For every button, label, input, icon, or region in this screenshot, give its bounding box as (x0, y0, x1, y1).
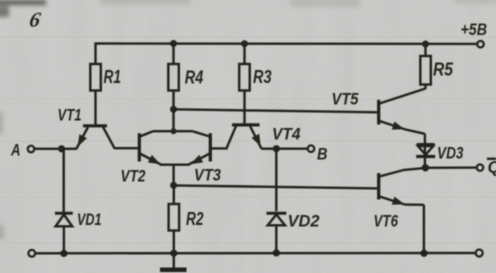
junction dot R4 top rail (170, 40, 177, 47)
svg-text:+5В: +5В (461, 21, 488, 39)
VT5 base bar (377, 100, 380, 125)
junction dot VD2 bottom rail (273, 249, 280, 256)
VT4 collector (211, 126, 236, 148)
ground rail (bottom bus wire) (35, 252, 476, 255)
VT2 base bar (138, 133, 141, 161)
resistor R1 (90, 64, 101, 91)
svg-text:R1: R1 (104, 67, 122, 87)
VT3 base bar (209, 133, 212, 161)
junction dot R4 bottom node (170, 106, 177, 113)
VT6 emitter (380, 197, 424, 205)
ground terminal right circle (476, 250, 483, 257)
VT3 emitter (189, 154, 210, 165)
VT5 emitter (380, 121, 425, 134)
VT1 base bar (83, 124, 107, 127)
svg-text:R3: R3 (253, 67, 272, 87)
transistor VT1 (77, 126, 139, 149)
VT6 collector (380, 168, 424, 176)
wire VD1 to ground rail (63, 226, 65, 253)
wire R3 top lead (243, 44, 245, 64)
wire R4 top lead (172, 44, 174, 65)
transistor VT5 (379, 89, 426, 134)
junction dot R2 bottom rail (170, 250, 177, 257)
VT3 emitter arrow (191, 155, 204, 164)
wire R5 bottom lead (424, 85, 426, 90)
svg-text:VT1: VT1 (58, 107, 82, 125)
VT4 emitter arrow (252, 134, 261, 147)
wire collector bus top of lens (153, 130, 192, 132)
wire VD2 to ground rail (275, 225, 277, 253)
wire Q node to output terminal (425, 166, 476, 169)
wire R2 top lead (173, 185, 175, 204)
wire lens bottom down to R2 node (172, 165, 174, 186)
VT5 collector (380, 89, 426, 104)
transistor VT4 (211, 125, 276, 149)
svg-text:VD3: VD3 (437, 145, 464, 163)
junction dot VD1 bottom rail (60, 250, 67, 257)
VT4 emitter (250, 126, 262, 149)
wire R4 node down to collector bus (172, 109, 174, 131)
wire emitter bus bottom of lens (160, 163, 190, 165)
svg-text:R5: R5 (433, 60, 454, 80)
junction dot lens top (171, 128, 177, 134)
svg-text:Q: Q (488, 158, 496, 177)
wire R5 top lead (424, 44, 426, 56)
junction dot R3 top rail (241, 40, 248, 47)
power rail +5V (top bus wire) (96, 44, 478, 64)
output terminal Q circle (477, 164, 483, 170)
diode VD2 (267, 213, 287, 225)
svg-text:VD2: VD2 (288, 213, 320, 231)
VT5 emitter arrow (392, 122, 405, 130)
svg-text:A: A (10, 140, 20, 159)
VT2 emitter (140, 154, 161, 165)
junction dot A node (58, 145, 65, 152)
resistor R4 (168, 64, 179, 91)
overline of Q-bar (487, 158, 496, 160)
junction dot B node (273, 145, 280, 152)
wire R1 bottom to VT1 base (94, 91, 96, 126)
wire node2 bus: R2 node to VT6 base (174, 185, 379, 188)
VT2 collector (140, 131, 153, 136)
wire VT6 emitter down to ground rail (423, 205, 425, 253)
svg-text:R2: R2 (186, 209, 204, 229)
VT6 emitter arrow (392, 197, 405, 205)
ground symbol (160, 268, 187, 273)
transistor VT6 (379, 168, 424, 205)
wire input A to VT1 emitter (35, 148, 78, 150)
input terminal B circle (308, 145, 315, 152)
VT1 emitter arrow (78, 134, 87, 147)
svg-text:VT3: VT3 (194, 167, 221, 185)
diode VD1 (55, 213, 73, 226)
diode VD3 (416, 145, 435, 157)
resistor R5 (420, 56, 431, 85)
transistor VT2 (139, 131, 161, 164)
junction dot VT6 emitter rail (420, 250, 427, 257)
+5V terminal circle (477, 41, 484, 48)
resistor R3 (239, 64, 250, 91)
junction dot R5 top rail (422, 41, 429, 48)
svg-text:R4: R4 (185, 68, 204, 88)
wire A node down to VD1 (63, 149, 65, 213)
svg-text:VT5: VT5 (332, 91, 360, 109)
VT4 emitter to B node (262, 147, 277, 149)
svg-text:В: В (317, 144, 328, 163)
wire R3 bottom to VT4 base (243, 91, 245, 125)
wire B node down to VD2 (275, 149, 277, 212)
svg-text:VT4: VT4 (272, 126, 301, 144)
input terminal A circle (28, 146, 35, 153)
resistor R2 (169, 204, 180, 231)
VT4 base bar (232, 123, 260, 126)
VT6 base bar (377, 173, 380, 199)
ground terminal left circle (28, 250, 35, 257)
wire node1 bus: R4 bottom to VT5 base (174, 109, 379, 112)
svg-text:VD1: VD1 (77, 211, 102, 229)
svg-text:VT2: VT2 (121, 168, 146, 186)
wire R4 bottom lead (172, 91, 174, 110)
wire VT5 emitter down to VD3 (424, 134, 426, 168)
svg-text:VT6: VT6 (374, 213, 399, 231)
transistor VT3 (189, 131, 211, 164)
wire B node to terminal (276, 147, 307, 149)
VT1 collector (103, 127, 139, 148)
VT2 emitter arrow (148, 155, 161, 164)
junction dot R2 top node (170, 182, 177, 189)
junction dot Q node (422, 164, 429, 171)
VT3 collector (192, 131, 209, 136)
VT1 emitter (77, 127, 89, 149)
wire R2 bottom through rail to ground (173, 231, 175, 269)
